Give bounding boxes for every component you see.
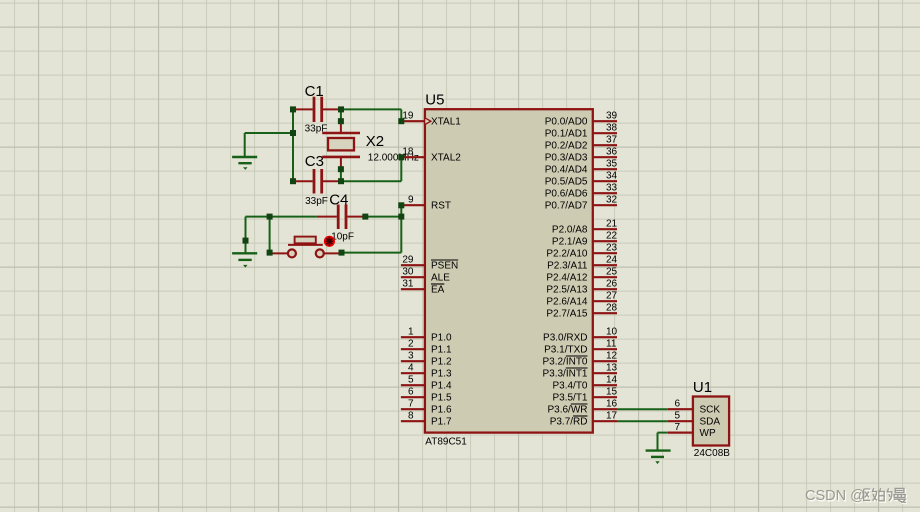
pin 25 P2.4/A12 (right)	[593, 276, 617, 278]
svg-text:23: 23	[606, 243, 618, 254]
ground (U1 WP)	[646, 449, 671, 451]
wire P3.6/WR to SCK	[617, 408, 668, 410]
svg-text:P2.6/A14: P2.6/A14	[546, 297, 588, 308]
red marker over 10pF	[324, 236, 335, 247]
svg-text:P0.4/AD4: P0.4/AD4	[545, 165, 588, 176]
pin 21 P2.0/A8 (right)	[593, 228, 617, 230]
svg-text:5: 5	[408, 375, 414, 386]
svg-text:P3.3/INT1: P3.3/INT1	[542, 369, 587, 380]
svg-text:P3.5/T1: P3.5/T1	[552, 393, 587, 404]
pin 4 P1.3 (left)	[401, 372, 425, 374]
pin 6 P1.5 (left)	[401, 396, 425, 398]
svg-text:30: 30	[402, 267, 414, 278]
svg-text:27: 27	[606, 291, 618, 302]
svg-text:XTAL1: XTAL1	[431, 117, 461, 128]
pin 10 P3.0/RXD (right)	[593, 336, 617, 338]
junction	[338, 118, 344, 124]
svg-text:P1.0: P1.0	[431, 333, 452, 344]
capacitor C4 leads	[317, 216, 337, 218]
wire button right to RST horizontal	[342, 252, 402, 254]
svg-text:33: 33	[606, 183, 618, 194]
svg-text:U5: U5	[425, 91, 444, 108]
svg-text:5: 5	[674, 411, 680, 422]
wire RST vertical	[400, 205, 402, 252]
svg-text:RST: RST	[431, 201, 451, 212]
svg-text:36: 36	[606, 147, 618, 158]
svg-text:PSEN: PSEN	[431, 261, 458, 272]
push button contact bar	[288, 244, 323, 246]
push button actuator	[295, 237, 316, 244]
wire XTAL2 vertical rise	[400, 157, 402, 181]
pin 37 P0.2/AD2 (right)	[593, 144, 617, 146]
wire XTAL1 vertical drop	[400, 109, 402, 121]
crystal X2 pin stubs	[340, 121, 342, 133]
crystal X2 electrode plates	[322, 132, 360, 135]
crystal X2 body	[328, 138, 354, 150]
capacitor C1 plates	[313, 97, 316, 122]
pin 3 P1.2 (left)	[401, 360, 425, 362]
svg-text:P0.3/AD3: P0.3/AD3	[545, 153, 588, 164]
capacitor C3 plates	[313, 169, 316, 194]
svg-text:U1: U1	[693, 379, 712, 396]
pin 2 P1.1 (left)	[401, 348, 425, 350]
svg-text:11: 11	[606, 339, 617, 350]
junction	[338, 178, 344, 184]
op-amp U5 body: AT89C51 microcontroller	[425, 109, 593, 432]
svg-text:P0.7/AD7: P0.7/AD7	[545, 201, 588, 212]
svg-text:31: 31	[402, 279, 414, 290]
svg-text:P3.0/RXD: P3.0/RXD	[543, 333, 587, 344]
wire C4 to RST pin horizontal	[365, 216, 401, 218]
wire C3 to XTAL2 horizontal	[341, 180, 401, 182]
svg-text:P1.5: P1.5	[431, 393, 452, 404]
push button right terminal	[316, 249, 324, 257]
svg-text:24: 24	[606, 255, 618, 266]
wire WP to ground horizontal	[658, 432, 668, 434]
svg-text:10: 10	[606, 327, 618, 338]
svg-text:WP: WP	[700, 428, 716, 439]
svg-text:P2.5/A13: P2.5/A13	[546, 285, 588, 296]
pin 38 P0.1/AD1 (right)	[593, 132, 617, 134]
svg-text:AT89C51: AT89C51	[425, 436, 467, 447]
svg-text:P1.1: P1.1	[431, 345, 452, 356]
pin 8 P1.7 (left)	[401, 420, 425, 422]
wire RST rail horizontal	[246, 216, 317, 218]
svg-text:9: 9	[408, 195, 414, 206]
pin 5 SDA (U1)	[668, 420, 693, 422]
pin 5 P1.4 (left)	[401, 384, 425, 386]
pin XTAL1 clock input arrow	[425, 118, 431, 125]
junction	[290, 106, 296, 112]
pin 22 P2.1/A9 (right)	[593, 240, 617, 242]
capacitor C1 leads	[293, 108, 313, 110]
wire to ground 2 vertical	[245, 217, 247, 254]
svg-text:37: 37	[606, 135, 618, 146]
svg-text:SDA: SDA	[700, 417, 721, 428]
wire crystal top link	[340, 109, 342, 121]
pin 14 P3.4/T0 (right)	[593, 384, 617, 386]
junction	[338, 106, 344, 112]
wire WP to ground vertical	[657, 433, 659, 451]
svg-text:CSDN @: CSDN @	[805, 488, 865, 504]
svg-text:P1.4: P1.4	[431, 381, 452, 392]
watermark hanzi	[894, 490, 907, 504]
svg-text:1: 1	[408, 327, 414, 338]
svg-text:P1.7: P1.7	[431, 417, 452, 428]
svg-text:7: 7	[674, 422, 680, 433]
svg-text:P0.0/AD0: P0.0/AD0	[545, 117, 588, 128]
svg-text:16: 16	[606, 399, 618, 410]
ground (reset network)	[232, 252, 257, 254]
pin 24 P2.3/A11 (right)	[593, 264, 617, 266]
junction	[290, 178, 296, 184]
junction	[243, 238, 249, 244]
pin 27 P2.6/A14 (right)	[593, 300, 617, 302]
junction	[398, 154, 404, 160]
svg-text:35: 35	[606, 159, 618, 170]
svg-text:X2: X2	[366, 133, 384, 150]
pin 18 XTAL2 (left)	[401, 156, 425, 158]
svg-text:P2.7/A15: P2.7/A15	[546, 309, 588, 320]
pin 11 P3.1/TXD (right)	[593, 348, 617, 350]
svg-text:22: 22	[606, 231, 618, 242]
svg-text:P2.4/A12: P2.4/A12	[546, 273, 588, 284]
svg-text:6: 6	[408, 387, 414, 398]
svg-text:17: 17	[606, 411, 618, 422]
pin 30 ALE (left)	[401, 276, 425, 278]
pin 33 P0.6/AD6 (right)	[593, 192, 617, 194]
svg-text:P3.2/INT0: P3.2/INT0	[542, 357, 587, 368]
svg-text:26: 26	[606, 279, 618, 290]
svg-text:25: 25	[606, 267, 618, 278]
junction	[398, 202, 404, 208]
svg-text:3: 3	[408, 351, 414, 362]
pin 9 RST (left)	[401, 204, 425, 206]
pin 7 P1.6 (left)	[401, 408, 425, 410]
svg-text:2: 2	[408, 339, 414, 350]
svg-text:7: 7	[408, 399, 414, 410]
pin 34 P0.5/AD5 (right)	[593, 180, 617, 182]
svg-text:8: 8	[408, 411, 414, 422]
pin 32 P0.7/AD7 (right)	[593, 204, 617, 206]
pin 13 P3.3/INT1 (right)	[593, 372, 617, 374]
svg-text:P3.6/WR: P3.6/WR	[547, 405, 587, 416]
svg-text:34: 34	[606, 171, 618, 182]
push button leads	[270, 252, 288, 254]
junction	[338, 166, 344, 172]
pin 36 P0.3/AD3 (right)	[593, 156, 617, 158]
svg-text:P2.0/A8: P2.0/A8	[552, 225, 588, 236]
pin 1 P1.0 (left)	[401, 336, 425, 338]
svg-text:P0.6/AD6: P0.6/AD6	[545, 189, 588, 200]
svg-text:P1.6: P1.6	[431, 405, 452, 416]
svg-text:P3.1/TXD: P3.1/TXD	[544, 345, 587, 356]
svg-text:12: 12	[606, 351, 618, 362]
junction	[267, 214, 273, 220]
svg-text:C3: C3	[305, 153, 324, 170]
svg-text:SCK: SCK	[700, 405, 721, 416]
pin 19 XTAL1 (left)	[401, 120, 425, 122]
wire P3.7/RD to SDA	[617, 420, 668, 422]
junction	[398, 118, 404, 124]
junction	[339, 250, 345, 256]
svg-text:P0.2/AD2: P0.2/AD2	[545, 141, 588, 152]
wire crystal bottom link	[340, 169, 342, 181]
wire ground branch vertical	[244, 133, 246, 157]
svg-text:P1.3: P1.3	[431, 369, 452, 380]
svg-text:4: 4	[408, 363, 414, 374]
pin 15 P3.5/T1 (right)	[593, 396, 617, 398]
pin 6 SCK (U1)	[668, 408, 693, 410]
svg-text:33pF: 33pF	[305, 196, 328, 207]
svg-text:38: 38	[606, 123, 618, 134]
pin 12 P3.2/INT0 (right)	[593, 360, 617, 362]
wire C1 to XTAL1 horizontal	[341, 108, 401, 110]
pin 17 P3.7/RD (right)	[593, 420, 617, 422]
wire ground branch horizontal	[245, 132, 293, 134]
svg-text:24C08B: 24C08B	[694, 448, 730, 459]
pin 26 P2.5/A13 (right)	[593, 288, 617, 290]
svg-text:ALE: ALE	[431, 273, 450, 284]
svg-text:P0.1/AD1: P0.1/AD1	[545, 129, 588, 140]
svg-text:P1.2: P1.2	[431, 357, 452, 368]
svg-text:6: 6	[674, 399, 680, 410]
svg-text:14: 14	[606, 375, 618, 386]
svg-text:39: 39	[606, 111, 618, 122]
svg-text:EA: EA	[431, 285, 445, 296]
svg-text:15: 15	[606, 387, 618, 398]
ground (crystal network)	[232, 156, 257, 158]
IC U1 body: 24C08B EEPROM	[693, 397, 729, 446]
svg-text:P3.4/T0: P3.4/T0	[552, 381, 587, 392]
junction	[267, 250, 273, 256]
wire button left branch vertical	[269, 217, 271, 253]
capacitor C3 leads	[293, 180, 313, 182]
pin 31 EA (left)	[401, 288, 425, 290]
svg-text:P0.5/AD5: P0.5/AD5	[545, 177, 588, 188]
svg-text:P3.7/RD: P3.7/RD	[550, 417, 588, 428]
pin 35 P0.4/AD4 (right)	[593, 168, 617, 170]
svg-text:P2.3/A11: P2.3/A11	[547, 261, 588, 272]
junction	[362, 214, 368, 220]
watermark hanzi	[880, 489, 893, 502]
svg-text:32: 32	[606, 195, 618, 206]
svg-text:28: 28	[606, 303, 618, 314]
wire C1-C3 left vertical	[292, 109, 294, 181]
pin 16 P3.6/WR (right)	[593, 408, 617, 410]
pin 28 P2.7/A15 (right)	[593, 312, 617, 314]
pin 7 WP (U1)	[668, 432, 693, 434]
svg-text:21: 21	[606, 219, 618, 230]
pin 39 P0.0/AD0 (right)	[593, 120, 617, 122]
svg-text:P2.2/A10: P2.2/A10	[546, 249, 588, 260]
push button left terminal	[288, 249, 296, 257]
watermark hanzi	[865, 489, 878, 501]
junction	[398, 214, 404, 220]
svg-text:13: 13	[606, 363, 618, 374]
pin 23 P2.2/A10 (right)	[593, 252, 617, 254]
svg-text:29: 29	[402, 255, 414, 266]
junction	[290, 130, 296, 136]
svg-text:XTAL2: XTAL2	[431, 153, 461, 164]
pin 29 PSEN (left)	[401, 264, 425, 266]
svg-text:P2.1/A9: P2.1/A9	[552, 237, 588, 248]
capacitor C4 plates	[337, 205, 340, 230]
